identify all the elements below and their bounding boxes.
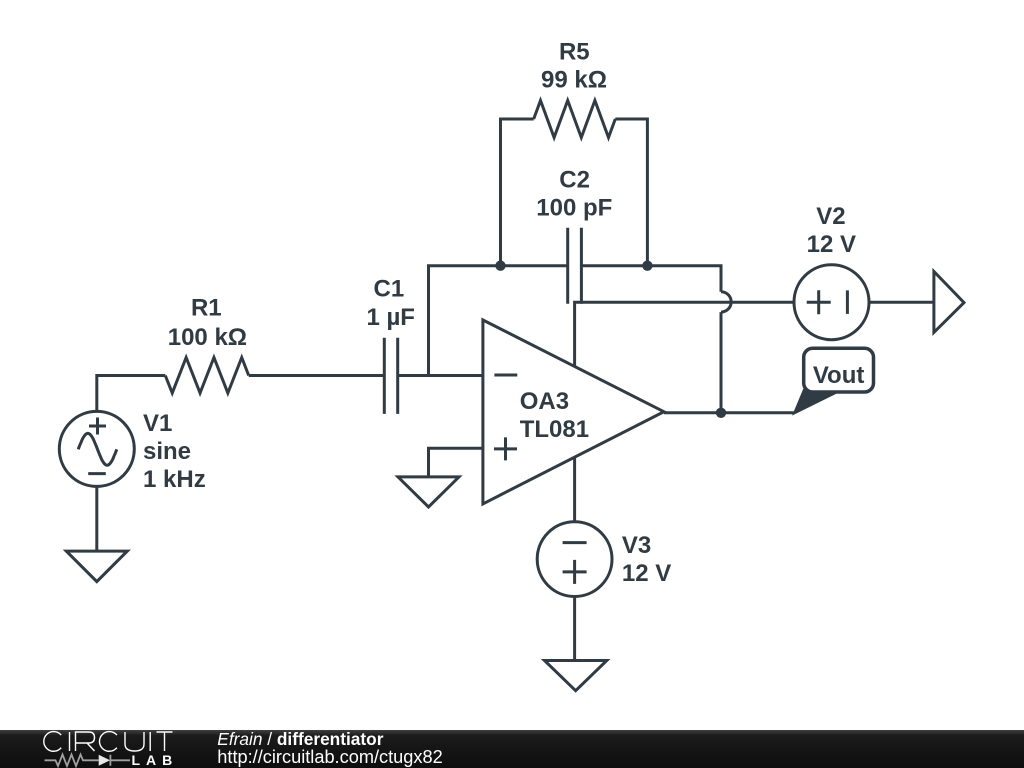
wire top net right segment [581, 266, 721, 292]
op-amp U1 OA3 triangle [483, 320, 664, 504]
footer bar [0, 730, 1024, 768]
resistor R1 [165, 358, 248, 394]
logo resistor-diode wire [45, 755, 131, 767]
wire op-amp V+ pin to V2 [575, 302, 794, 366]
svg-text:V2: V2 [816, 203, 845, 230]
svg-text:R5: R5 [559, 38, 590, 65]
wire inverting riser to top net [429, 266, 568, 376]
capacitor C1 [384, 338, 397, 414]
wire V3 to ground [573, 597, 576, 661]
voltage source V2 [794, 265, 869, 340]
svg-text:1 kHz: 1 kHz [143, 466, 206, 493]
ground at non-inverting input [398, 477, 459, 507]
label OA3 TL081 [520, 388, 589, 443]
svg-text:V1: V1 [143, 410, 172, 437]
label C1 [366, 276, 415, 332]
label V2 [807, 203, 856, 258]
svg-text:sine: sine [143, 438, 191, 465]
label C2 [536, 166, 612, 221]
capacitor C2 [568, 228, 582, 304]
wire R1 to C1 [249, 374, 385, 377]
label V3 [622, 532, 671, 587]
svg-text:V3: V3 [622, 532, 651, 559]
svg-text:100 kΩ: 100 kΩ [168, 324, 247, 351]
op-amp minus symbol [494, 374, 517, 377]
svg-text:99 kΩ: 99 kΩ [541, 66, 607, 93]
svg-text:Vout: Vout [813, 362, 865, 389]
logo LAB text [132, 752, 179, 768]
ground below V1 [66, 551, 127, 582]
wire V1 to ground [95, 486, 98, 551]
wire R5 left riser [501, 119, 534, 266]
label V1 [143, 410, 206, 493]
svg-text:C1: C1 [374, 276, 405, 303]
svg-text:12 V: 12 V [807, 231, 856, 258]
label R5 [541, 38, 607, 93]
voltage source V1 sine [59, 411, 134, 486]
footer url text [217, 747, 442, 767]
svg-text:12 V: 12 V [622, 560, 671, 587]
svg-text:C2: C2 [559, 166, 590, 193]
wire feedback down to output [720, 312, 723, 413]
wire V1 top to R1 [97, 376, 166, 413]
svg-text:LAB: LAB [132, 752, 179, 768]
wire hop over supply wire [721, 292, 731, 312]
voltage source V3 [537, 522, 612, 597]
svg-text:Efrain / differentiator: Efrain / differentiator [217, 729, 383, 749]
svg-text:100 pF: 100 pF [536, 194, 612, 221]
logo diode triangle [99, 755, 110, 766]
svg-text:1 µF: 1 µF [366, 304, 415, 331]
ground right of V2 [934, 272, 964, 333]
label Vout [813, 362, 865, 389]
svg-text:OA3: OA3 [520, 388, 569, 415]
label R1 [168, 295, 247, 351]
op-amp plus symbol [494, 437, 517, 460]
wire V2 to right ground [869, 301, 934, 304]
node junction on top net left [495, 261, 505, 271]
flag Vout box [804, 348, 874, 392]
svg-text:TL081: TL081 [520, 416, 589, 443]
node junction on output [716, 408, 726, 418]
ground below V3 [545, 661, 607, 691]
svg-text:R1: R1 [191, 295, 222, 322]
wire op-amp output [664, 411, 794, 414]
flag Vout pointer [794, 389, 838, 414]
wire op-amp V- pin to V3 [573, 457, 576, 521]
logo CIRCUIT outline text [44, 732, 173, 752]
resistor R5 [534, 101, 616, 138]
wire R5 right riser [615, 119, 647, 266]
node junction on top net right [642, 261, 652, 271]
footer title text [217, 729, 383, 749]
svg-text:http://circuitlab.com/ctugx82: http://circuitlab.com/ctugx82 [217, 747, 442, 767]
wire non-inverting input to ground [429, 448, 483, 477]
wire C1 to op-amp inverting input [398, 374, 483, 377]
